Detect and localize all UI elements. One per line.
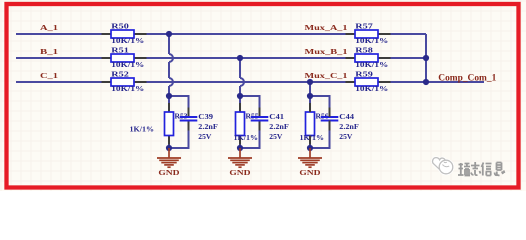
svg-text:GND: GND	[229, 169, 250, 177]
resistor R53 body	[165, 112, 174, 136]
svg-text:GND: GND	[299, 169, 320, 177]
resistor R50 pins	[102, 33, 147, 35]
svg-text:R50: R50	[111, 22, 129, 30]
wire R59 output to Comp_Com_1	[378, 81, 484, 83]
svg-text:Mux_B_1: Mux_B_1	[305, 48, 349, 56]
resistor R53 pins	[168, 103, 170, 145]
wire top node to C39 top plate	[169, 96, 189, 117]
svg-text:10K/1%: 10K/1%	[355, 61, 388, 69]
wire R53 branch vertical through resistor to ground node	[168, 96, 170, 148]
capacitor C44 pins	[329, 108, 331, 131]
svg-text:Mux_A_1: Mux_A_1	[305, 24, 349, 32]
svg-text:10K/1%: 10K/1%	[111, 61, 144, 69]
capacitor C44 plates	[321, 117, 339, 121]
svg-text:10K/1%: 10K/1%	[111, 85, 144, 93]
capacitor C44 pins	[329, 108, 331, 131]
wire vertical from net C to third RC filter	[309, 82, 311, 96]
svg-text:R52: R52	[111, 70, 129, 78]
svg-text:Mux_C_1: Mux_C_1	[305, 72, 349, 80]
junction top node of R56/C44	[307, 93, 313, 99]
svg-text:10K/1%: 10K/1%	[355, 37, 388, 45]
capacitor C39 plates	[180, 117, 198, 121]
svg-text:A_1: A_1	[40, 24, 59, 32]
svg-text:C_1: C_1	[40, 72, 59, 80]
capacitor C44 pins	[329, 108, 331, 131]
resistor R50 body	[111, 30, 134, 38]
svg-text:1K/1%: 1K/1%	[234, 134, 259, 142]
wire net C_1 from left edge through R52 to R59	[16, 81, 355, 83]
wire top node to C44 top plate	[310, 96, 330, 117]
svg-text:10K/1%: 10K/1%	[355, 85, 388, 93]
svg-text:B_1: B_1	[40, 48, 59, 56]
wire net A_1 from left edge through R50 to R57	[16, 33, 355, 35]
junction net A / vertical drop	[166, 31, 172, 37]
resistor R52 pins	[309, 103, 311, 145]
svg-text:25V: 25V	[198, 133, 212, 141]
resistor R57 pins	[309, 103, 311, 145]
ground symbol below R55/C41	[228, 148, 252, 167]
wire R56 branch vertical through resistor to ground node	[309, 96, 311, 148]
svg-text:C44: C44	[339, 113, 354, 121]
svg-text:R51: R51	[111, 46, 129, 54]
junction net C / vertical drop	[307, 79, 313, 85]
svg-text:R59: R59	[355, 70, 373, 78]
svg-text:C39: C39	[198, 113, 213, 121]
svg-text:GND: GND	[158, 169, 179, 177]
junction right bus / net B row	[423, 55, 429, 61]
resistor R58 pins	[346, 57, 391, 59]
resistor R52 body	[111, 78, 134, 86]
junction bottom node of R55/C41 at ground	[237, 145, 243, 151]
junction top node of R55/C41	[237, 93, 243, 99]
svg-text:R58: R58	[355, 46, 373, 54]
junction bottom node of R56/C44 at ground	[307, 145, 313, 151]
capacitor C41 pins	[259, 108, 261, 131]
svg-text:1K/1%: 1K/1%	[130, 126, 155, 134]
wire C39 bottom plate to ground node	[169, 121, 189, 149]
ground symbol below R53/C39	[157, 148, 181, 167]
junction bottom node of R53/C39 at ground	[166, 145, 172, 151]
svg-text:R57: R57	[355, 22, 373, 30]
junction top node of R53/C39	[166, 93, 172, 99]
resistor R51 pins	[102, 57, 147, 59]
capacitor C39 pins	[188, 108, 190, 131]
svg-text:10K/1%: 10K/1%	[111, 37, 144, 45]
wire vertical from net A to first RC filter, hops over B and C	[169, 34, 173, 96]
resistor R57 body	[355, 30, 378, 38]
capacitor C44 pins	[329, 108, 331, 131]
capacitor C44 pins	[329, 108, 331, 131]
resistor R55 pins	[239, 103, 241, 145]
resistor R51 pins	[309, 103, 311, 145]
svg-text:1K/1%: 1K/1%	[300, 134, 325, 142]
resistor R57 pins	[346, 33, 391, 35]
wire net B_1 from left edge through R51 to R58	[16, 57, 355, 59]
wire R55 branch vertical through resistor to ground node	[239, 96, 241, 148]
wire R57 output to right bus	[378, 33, 426, 35]
svg-text:2.2nF: 2.2nF	[198, 123, 218, 131]
wire C44 bottom plate to ground node	[310, 121, 330, 149]
resistor R59 body	[355, 78, 378, 86]
capacitor C44 pins	[329, 108, 331, 131]
resistor R59 pins	[346, 81, 391, 83]
svg-text:C41: C41	[269, 113, 284, 121]
resistor R55 body	[236, 112, 245, 136]
svg-text:2.2nF: 2.2nF	[339, 123, 359, 131]
wire right vertical bus joining R57,R58,R59 outputs	[425, 34, 427, 82]
resistor R58 body	[355, 54, 378, 62]
capacitor C44 pins	[329, 108, 331, 131]
junction net B / vertical drop	[237, 55, 243, 61]
resistor R50 pins	[309, 103, 311, 145]
wire vertical from net B to second RC filter, hops over C	[240, 58, 244, 96]
svg-text:25V: 25V	[269, 133, 283, 141]
resistor R52 pins	[102, 81, 147, 83]
junction right bus / Comp_Com_1 row	[423, 79, 429, 85]
wire R58 output to right bus	[378, 57, 426, 59]
resistor R59 pins	[309, 103, 311, 145]
svg-text:Comp_Com_1: Comp_Com_1	[438, 73, 497, 83]
resistor R51 body	[111, 54, 134, 62]
wire C41 bottom plate to ground node	[240, 121, 260, 149]
resistor R56 pins	[309, 103, 311, 145]
svg-text:2.2nF: 2.2nF	[269, 123, 289, 131]
ground symbol below R56/C44	[298, 148, 322, 167]
resistor R58 pins	[309, 103, 311, 145]
capacitor C41 plates	[251, 117, 269, 121]
resistor R56 body	[306, 112, 315, 136]
wire top node to C41 top plate	[240, 96, 260, 117]
svg-text:25V: 25V	[339, 133, 353, 141]
